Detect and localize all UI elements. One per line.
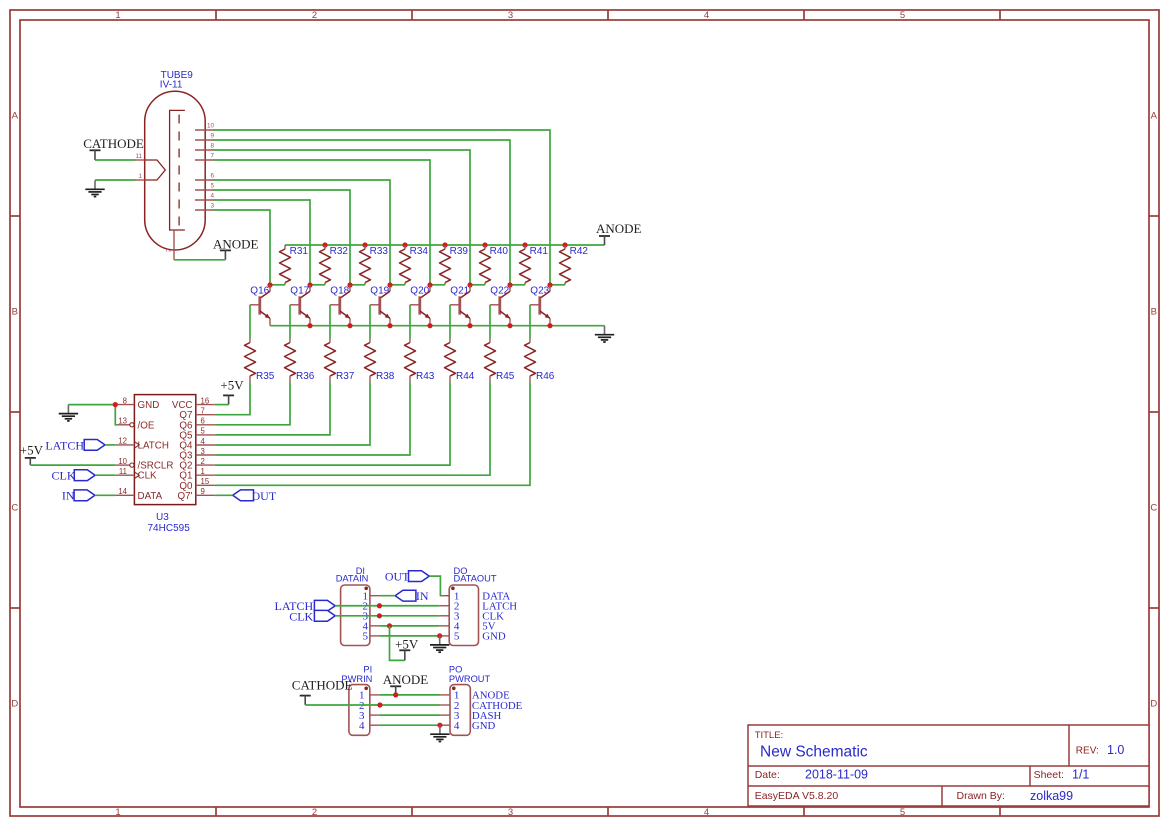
tube pin 7 (195, 159, 214, 161)
svg-text:A: A (12, 111, 19, 122)
PI pin 1 (370, 694, 380, 696)
junction (377, 613, 382, 618)
svg-text:R36: R36 (296, 371, 315, 382)
wire (489, 305, 491, 339)
U3 pin 5 Q5 (196, 434, 215, 436)
wire 5V net (379, 625, 439, 627)
resistor R42 (564, 245, 566, 249)
svg-text:U3: U3 (156, 512, 169, 523)
wire (215, 383, 290, 425)
svg-text:ANODE: ANODE (596, 221, 642, 236)
wire net SEG6 (213, 180, 390, 285)
svg-text:R31: R31 (290, 246, 309, 257)
U3 pin 12 LATCH (115, 444, 134, 446)
svg-text:R40: R40 (490, 246, 509, 257)
wire (310, 284, 325, 286)
svg-text:2: 2 (312, 10, 317, 21)
junction (307, 282, 312, 287)
svg-text:Q16: Q16 (250, 286, 269, 297)
svg-text:LATCH: LATCH (138, 440, 169, 451)
junction (427, 323, 432, 328)
svg-text:CLK: CLK (52, 468, 76, 482)
DI pin 1 (370, 595, 380, 597)
junction (442, 242, 447, 247)
svg-text:4: 4 (359, 720, 365, 732)
wire (105, 444, 115, 446)
U3 pin 14 DATA (115, 494, 134, 496)
svg-text:5: 5 (201, 427, 206, 436)
wire (529, 305, 531, 339)
resistor R37 (329, 339, 331, 343)
svg-text:6: 6 (201, 417, 205, 426)
svg-text:DATAOUT: DATAOUT (454, 574, 497, 584)
resistor R44 (449, 339, 451, 343)
wire DASH net (380, 714, 440, 716)
wire (409, 305, 411, 339)
PO pin 3 DASH (440, 714, 450, 716)
wire GND net (68, 404, 115, 406)
wire (430, 284, 445, 286)
U3 pin 4 Q4 (196, 444, 215, 446)
wire (115, 405, 117, 425)
U3 pin 2 Q2 (196, 464, 215, 466)
junction (467, 323, 472, 328)
PO pin 4 GND (440, 724, 450, 726)
wire (95, 179, 136, 181)
wire net SEG9 (213, 140, 510, 285)
svg-text:ANODE: ANODE (383, 672, 429, 687)
U3 pin 7 Q7 (196, 414, 215, 416)
junction (482, 242, 487, 247)
svg-text:5: 5 (900, 807, 905, 818)
wire (215, 383, 370, 446)
svg-text:1: 1 (138, 173, 142, 180)
tube pin 6 (195, 179, 214, 181)
svg-text:15: 15 (201, 477, 210, 486)
tube pin 4 (195, 199, 214, 201)
svg-text:C: C (1150, 503, 1157, 514)
U3 pin 13 /OE (115, 424, 129, 426)
resistor R31 (284, 245, 286, 249)
junction (347, 282, 352, 287)
wire (429, 576, 440, 596)
svg-text:14: 14 (118, 487, 127, 496)
wire net SEG3 (213, 210, 270, 285)
DO pin 1 DATA (440, 595, 450, 597)
svg-text:2: 2 (201, 457, 205, 466)
svg-text:GND: GND (482, 631, 506, 643)
svg-text:10: 10 (118, 457, 127, 466)
svg-text:Q21: Q21 (450, 286, 469, 297)
svg-text:OUT: OUT (252, 489, 277, 503)
svg-text:R39: R39 (450, 246, 469, 257)
wire (215, 383, 250, 415)
junction (347, 323, 352, 328)
junction (547, 323, 552, 328)
U3 pin 1 Q1 (196, 474, 215, 476)
U3 pin 3 Q3 (196, 454, 215, 456)
svg-text:11: 11 (119, 467, 127, 476)
svg-text:4: 4 (201, 437, 206, 446)
svg-text:Q23: Q23 (530, 286, 549, 297)
wire ANODE net (380, 694, 440, 696)
wire (215, 494, 233, 496)
svg-text:R37: R37 (336, 371, 355, 382)
svg-text:Q19: Q19 (370, 286, 389, 297)
DI pin 4 (370, 625, 380, 627)
svg-text:5: 5 (454, 631, 460, 643)
wire CATHODE net (305, 704, 440, 706)
DO pin 4 5V (440, 625, 450, 627)
wire (390, 284, 405, 286)
PO pin 2 CATHODE (440, 704, 450, 706)
wire (215, 404, 229, 406)
wire (390, 626, 405, 661)
ground (604, 326, 606, 335)
svg-text:GND: GND (472, 720, 496, 732)
svg-text:Sheet:: Sheet: (1034, 769, 1064, 781)
wire (270, 284, 285, 286)
wire (289, 305, 291, 339)
svg-text:1: 1 (115, 10, 120, 21)
junction (377, 702, 382, 707)
tube pin 1 (136, 179, 145, 181)
svg-text:+5V: +5V (220, 377, 244, 392)
svg-text:8: 8 (123, 396, 127, 405)
svg-text:CATHODE: CATHODE (292, 678, 353, 693)
junction (402, 242, 407, 247)
svg-text:R42: R42 (570, 246, 589, 257)
wire net SEG4 (213, 200, 310, 285)
svg-text:5: 5 (210, 182, 214, 189)
svg-text:REV:: REV: (1076, 746, 1099, 757)
tube pin 10 (195, 129, 214, 131)
wire ANODE rail (285, 244, 605, 246)
svg-text:IN: IN (62, 489, 75, 503)
resistor R45 (489, 339, 491, 343)
svg-text:DATAIN: DATAIN (336, 574, 369, 584)
PO pin 1 ANODE (440, 694, 450, 696)
svg-text:zolka99: zolka99 (1030, 789, 1073, 803)
wire GND net (379, 635, 439, 637)
svg-text:3: 3 (508, 10, 513, 21)
ground (439, 636, 441, 645)
resistor R40 (484, 245, 486, 249)
tube pin 11 (136, 159, 145, 161)
wire (350, 284, 365, 286)
svg-text:Q7': Q7' (178, 491, 193, 502)
svg-text:2: 2 (312, 807, 317, 818)
svg-text:IN: IN (416, 589, 429, 603)
tube pin 2 (173, 230, 175, 260)
svg-text:Drawn By:: Drawn By: (957, 790, 1005, 802)
wire CLK net (335, 615, 440, 617)
junction (437, 633, 442, 638)
svg-text:16: 16 (201, 396, 210, 405)
wire (174, 259, 225, 261)
svg-text:Q22: Q22 (490, 286, 509, 297)
wire (215, 383, 450, 466)
svg-text:DATA: DATA (138, 491, 163, 502)
wire (369, 305, 371, 339)
junction (387, 623, 392, 628)
U3 pin 10 /SRCLR (115, 464, 129, 466)
junction (547, 282, 552, 287)
svg-text:9: 9 (201, 487, 205, 496)
svg-text:IV-11: IV-11 (160, 80, 183, 91)
junction (377, 603, 382, 608)
svg-text:1: 1 (201, 467, 205, 476)
svg-text:CLK: CLK (138, 471, 158, 482)
svg-text:R33: R33 (370, 246, 389, 257)
resistor R39 (444, 245, 446, 249)
junction (507, 282, 512, 287)
junction (387, 323, 392, 328)
junction (362, 242, 367, 247)
wire (215, 383, 410, 456)
junction (522, 242, 527, 247)
svg-text:74HC595: 74HC595 (148, 523, 191, 534)
svg-text:ANODE: ANODE (213, 236, 259, 251)
svg-text:B: B (12, 307, 18, 318)
svg-text:C: C (11, 503, 18, 514)
wire net SEG5 (213, 190, 350, 285)
resistor R34 (404, 245, 406, 249)
junction (427, 282, 432, 287)
resistor R46 (529, 339, 531, 343)
svg-text:5: 5 (363, 631, 369, 643)
wire (329, 305, 331, 339)
junction (393, 692, 398, 697)
ground (439, 725, 441, 734)
ground (67, 405, 69, 414)
DO pin 5 GND (440, 635, 450, 637)
svg-text:R43: R43 (416, 371, 435, 382)
DO pin 3 CLK (440, 615, 450, 617)
tube pin 8 (195, 149, 214, 151)
svg-text:EasyEDA V5.8.20: EasyEDA V5.8.20 (755, 790, 839, 802)
junction (562, 242, 567, 247)
DI pin 5 (370, 635, 380, 637)
svg-text:4: 4 (454, 720, 460, 732)
junction (113, 402, 118, 407)
svg-text:5: 5 (900, 10, 905, 21)
svg-text:6: 6 (210, 172, 214, 179)
PI pin 3 (370, 714, 380, 716)
tube TUBE9 IV-11 (145, 91, 206, 250)
svg-text:GND: GND (138, 400, 160, 411)
svg-text:Q18: Q18 (330, 286, 349, 297)
resistor R35 (249, 339, 251, 343)
svg-text:A: A (1151, 111, 1158, 122)
svg-text:1.0: 1.0 (1107, 743, 1124, 757)
svg-text:OUT: OUT (385, 569, 410, 583)
wire emitter/ground rail (270, 325, 605, 327)
junction (267, 282, 272, 287)
svg-text:CLK: CLK (289, 609, 313, 623)
resistor R32 (324, 245, 326, 249)
wire net SEG8 (213, 150, 470, 285)
svg-text:R35: R35 (256, 371, 275, 382)
DI pin 3 (370, 615, 380, 617)
U3 pin 8 GND (115, 404, 134, 406)
wire (95, 159, 136, 161)
resistor R41 (524, 245, 526, 249)
U3 pin 16 VCC (196, 404, 215, 406)
svg-text:3: 3 (210, 202, 214, 209)
svg-text:9: 9 (210, 132, 214, 139)
svg-text:D: D (11, 699, 18, 710)
wire (449, 305, 451, 339)
wire (215, 383, 490, 476)
DO pin 2 LATCH (440, 605, 450, 607)
svg-text:R38: R38 (376, 371, 395, 382)
wire LATCH net (335, 605, 440, 607)
op-amp U3 74HC595 body (134, 395, 195, 505)
wire (470, 284, 485, 286)
wire net SEG10 (213, 130, 550, 285)
wire (379, 595, 395, 597)
svg-text:PWROUT: PWROUT (449, 674, 491, 684)
svg-text:D: D (1150, 699, 1157, 710)
svg-text:10: 10 (207, 122, 215, 129)
svg-text:R45: R45 (496, 371, 515, 382)
svg-text:R41: R41 (530, 246, 549, 257)
wire (215, 383, 530, 486)
PI pin 4 (370, 724, 380, 726)
tube pin 9 (195, 139, 214, 141)
svg-text:3: 3 (508, 807, 513, 818)
svg-text:LATCH: LATCH (45, 438, 84, 452)
resistor R43 (409, 339, 411, 343)
svg-text:TITLE:: TITLE: (755, 730, 784, 741)
junction (507, 323, 512, 328)
wire net SEG7 (213, 160, 430, 285)
svg-text:/OE: /OE (138, 420, 155, 431)
svg-text:B: B (1151, 307, 1157, 318)
svg-text:+5V: +5V (20, 443, 44, 458)
svg-text:7: 7 (201, 407, 205, 416)
junction (322, 242, 327, 247)
U3 pin 6 Q6 (196, 424, 215, 426)
DI pin 2 (370, 605, 380, 607)
wire (30, 464, 115, 466)
U3 pin 9 Q7' (196, 494, 215, 496)
svg-text:1: 1 (115, 807, 120, 818)
svg-text:11: 11 (135, 153, 142, 160)
svg-text:R46: R46 (536, 371, 555, 382)
tube pin 3 (195, 209, 214, 211)
wire (510, 284, 525, 286)
junction (307, 323, 312, 328)
svg-text:New Schematic: New Schematic (760, 744, 868, 761)
svg-text:R32: R32 (330, 246, 349, 257)
svg-text:12: 12 (118, 437, 127, 446)
wire (95, 474, 115, 476)
svg-text:13: 13 (118, 417, 127, 426)
svg-text:R34: R34 (410, 246, 429, 257)
svg-text:1/1: 1/1 (1072, 768, 1089, 782)
ground (94, 180, 96, 189)
wire GND net (380, 724, 440, 726)
U3 pin 11 CLK (115, 474, 134, 476)
junction (437, 723, 442, 728)
junction (467, 282, 472, 287)
svg-text:Q20: Q20 (410, 286, 429, 297)
svg-text:CATHODE: CATHODE (83, 136, 144, 151)
wire (215, 383, 330, 435)
svg-text:4: 4 (704, 10, 709, 21)
svg-text:3: 3 (201, 447, 205, 456)
resistor R36 (289, 339, 291, 343)
svg-text:Date:: Date: (755, 769, 780, 781)
tube pin 5 (195, 189, 214, 191)
wire (95, 494, 115, 496)
PI pin 2 (370, 704, 380, 706)
U3 pin 15 Q0 (196, 484, 215, 486)
svg-text:2018-11-09: 2018-11-09 (805, 768, 868, 782)
svg-text:Q17: Q17 (290, 286, 309, 297)
svg-text:4: 4 (704, 807, 709, 818)
svg-text:7: 7 (210, 152, 214, 159)
title block (748, 725, 1149, 806)
svg-text:R44: R44 (456, 371, 475, 382)
svg-text:2: 2 (166, 248, 173, 252)
wire (249, 305, 251, 339)
junction (387, 282, 392, 287)
svg-text:4: 4 (210, 192, 214, 199)
wire (550, 284, 565, 286)
resistor R33 (364, 245, 366, 249)
svg-text:8: 8 (210, 142, 214, 149)
resistor R38 (369, 339, 371, 343)
